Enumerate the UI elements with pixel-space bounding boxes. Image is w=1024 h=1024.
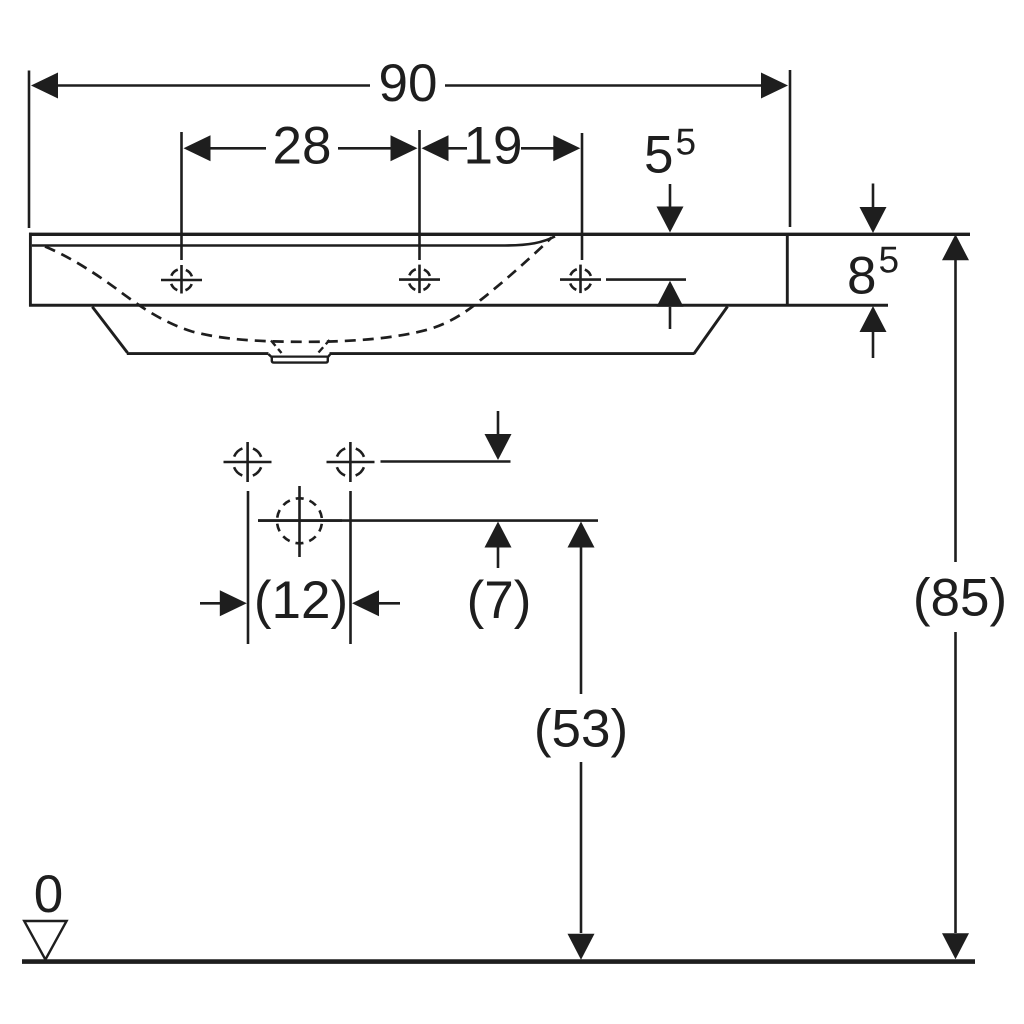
dim 90: line right segment (445, 84, 763, 87)
dim 8.5: up arrow (860, 306, 887, 332)
dim (53): lower line (580, 762, 583, 933)
basin bottom edge (extends right as 8.5 lower reference) (29, 304, 888, 307)
dim 28: line left segment (209, 147, 266, 150)
svg-text:(53): (53) (534, 700, 628, 759)
tap hole 3 crosshair vertical (579, 265, 582, 294)
dim 19: line right segment (521, 147, 555, 150)
dim 90: right arrow (761, 73, 788, 99)
svg-text:(85): (85) (913, 569, 1007, 628)
dim 28: left arrow (184, 135, 211, 161)
dim 28: right arrow (391, 135, 418, 161)
apron bottom left segment (127, 352, 269, 355)
large hole crosshair horizontal (258, 519, 342, 522)
mounting hole B dashed circle (336, 448, 365, 477)
dim 90: left arrow (31, 73, 58, 99)
tap hole 3 dashed circle (570, 269, 592, 291)
dim 19: right arrow (553, 135, 580, 161)
dim 8.5: down arrow (860, 207, 887, 233)
dim 8.5: lower stem (872, 332, 875, 358)
dim (12): right stem (378, 602, 400, 605)
dim (85): bottom down arrow (942, 933, 969, 959)
ground line (22, 959, 975, 964)
dim 19: right extension line (581, 133, 584, 260)
basin right edge (786, 234, 789, 306)
mounting hole A dashed circle (233, 448, 262, 477)
dim (85): lower line (954, 632, 957, 933)
basin left edge (29, 233, 32, 307)
tap hole 3 crosshair horizontal (560, 278, 601, 281)
dim 28: line right segment (338, 147, 392, 150)
tap hole 2 dashed circle (409, 269, 431, 291)
dim (7): lower stem (497, 548, 500, 569)
dim 5.5: lower stem (669, 307, 672, 329)
basin top edge line (extends right as 8.5 upper reference) (29, 233, 970, 236)
dim 90: right extension line (789, 70, 792, 227)
tap hole 2 crosshair vertical (418, 265, 421, 294)
tap hole 2 crosshair horizontal (399, 278, 440, 281)
mounting hole B crosshair horizontal (327, 461, 375, 464)
dim 90: left extension line (28, 71, 31, 229)
dim (12): right arrow (points left) (352, 590, 379, 616)
dim 8.5: upper stem (872, 184, 875, 208)
dim (12): left arrow (points right) (220, 590, 247, 616)
drain top line (272, 356, 328, 358)
lower reference line (large hole level) (258, 519, 598, 522)
svg-text:28: 28 (273, 116, 332, 175)
large hole crosshair vertical (298, 486, 301, 557)
drain funnel dashed left (271, 341, 282, 354)
dim (7): down arrow (485, 434, 512, 460)
drain funnel dashed right (319, 340, 330, 353)
svg-text:19: 19 (464, 116, 523, 175)
apron left slope (92, 307, 127, 353)
apron bottom right segment (330, 352, 695, 355)
drain outline (269, 354, 331, 362)
dim (85): upper line (954, 260, 957, 562)
dim 5.5: up arrow (657, 281, 684, 307)
tap hole 1 dashed circle (171, 269, 193, 291)
dim 5.5: lower reference line (606, 278, 686, 281)
mounting hole B crosshair vertical (349, 442, 352, 482)
dim 28/19: middle extension line (418, 130, 421, 260)
dim (7): up arrow (485, 522, 512, 548)
svg-text:(12): (12) (254, 571, 348, 630)
mounting hole A crosshair horizontal (224, 461, 272, 464)
tap hole 1 crosshair horizontal (161, 279, 202, 282)
dim (12): right extension line (349, 491, 352, 644)
svg-text:0: 0 (34, 865, 63, 924)
dim 19: line left segment (447, 147, 467, 150)
dim (85): top up arrow (942, 234, 969, 260)
mounting hole A crosshair vertical (246, 442, 249, 482)
tap hole 1 crosshair vertical (180, 265, 183, 294)
dim (53): bottom down arrow (568, 934, 595, 960)
dim 90: line left segment (56, 84, 370, 87)
datum triangle (24, 921, 66, 960)
apron right slope (694, 307, 728, 354)
dim 5.5: upper stem (669, 184, 672, 208)
basin dashed interior curve (45, 238, 552, 342)
dim 28: left extension line (180, 132, 183, 260)
dim (53): upper line (580, 547, 583, 694)
dim (53): top up arrow (568, 522, 595, 548)
dim 5.5: down arrow (657, 207, 684, 233)
svg-text:(7): (7) (467, 571, 532, 630)
dim 19: left arrow (422, 135, 449, 161)
dim (12): left extension line (247, 491, 250, 644)
basin inner rim line (32, 236, 555, 245)
dim (7): upper stem (497, 411, 500, 435)
large hole dashed circle (277, 498, 322, 543)
dim (12): left stem (200, 602, 224, 605)
upper reference line (small holes level) (381, 460, 511, 463)
svg-text:90: 90 (379, 54, 438, 113)
